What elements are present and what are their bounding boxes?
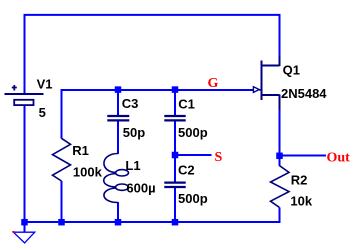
svg-text:R1: R1 xyxy=(72,143,89,158)
svg-text:G: G xyxy=(208,76,219,91)
node S junction xyxy=(172,152,179,159)
wire C1 top stub xyxy=(174,90,176,115)
capacitor C3 xyxy=(107,116,129,120)
svg-text:S: S xyxy=(215,150,223,165)
battery V1 xyxy=(5,85,44,105)
node G junction at C3 xyxy=(115,86,122,93)
wire bottom rail xyxy=(24,208,280,223)
wire top rail xyxy=(25,15,280,93)
svg-text:2N5484: 2N5484 xyxy=(281,86,327,101)
svg-text:600µ: 600µ xyxy=(126,180,155,195)
wire source to Out node xyxy=(279,109,281,156)
svg-text:10k: 10k xyxy=(290,193,312,208)
junction bottom rail at L1 xyxy=(115,219,122,226)
wire Out stub xyxy=(280,155,327,157)
junction bottom rail at R1 xyxy=(58,219,65,226)
wire C2 bottom xyxy=(174,188,176,222)
svg-text:500p: 500p xyxy=(178,191,208,206)
wire Out to R2 xyxy=(279,156,281,167)
svg-text:Q1: Q1 xyxy=(283,63,300,78)
wire C3 to L1 xyxy=(117,122,119,155)
ground xyxy=(24,224,26,232)
svg-text:L1: L1 xyxy=(125,158,140,173)
svg-text:Out: Out xyxy=(327,151,351,166)
capacitor C1 xyxy=(164,116,185,120)
svg-text:50p: 50p xyxy=(123,125,145,140)
junction bottom rail at battery xyxy=(21,219,28,226)
svg-text:C2: C2 xyxy=(178,163,195,178)
svg-text:V1: V1 xyxy=(37,76,53,91)
svg-text:C3: C3 xyxy=(122,96,139,111)
transistor Q1 (N-JFET) xyxy=(253,57,279,110)
junction bottom rail at C2 xyxy=(172,219,179,226)
node Out junction xyxy=(276,153,283,160)
svg-text:C1: C1 xyxy=(178,96,195,111)
svg-text:R2: R2 xyxy=(291,173,308,188)
wire S stub xyxy=(175,154,212,156)
capacitor C2 xyxy=(164,183,185,187)
wire C1 to S node xyxy=(174,122,176,156)
svg-text:500p: 500p xyxy=(178,125,208,140)
wire C3 top stub xyxy=(117,90,119,115)
svg-text:5: 5 xyxy=(39,105,46,120)
inductor L1 xyxy=(104,154,129,203)
wire R1 bottom xyxy=(61,181,63,222)
wire C2 top stub xyxy=(174,155,176,182)
resistor R1 xyxy=(53,138,71,181)
wire L1 bottom xyxy=(117,202,119,222)
wire gate rail G xyxy=(62,90,254,139)
resistor R2 xyxy=(271,166,290,208)
node G junction at C1 xyxy=(172,86,179,93)
svg-text:100k: 100k xyxy=(73,164,103,179)
wire left rail below battery xyxy=(24,106,26,233)
